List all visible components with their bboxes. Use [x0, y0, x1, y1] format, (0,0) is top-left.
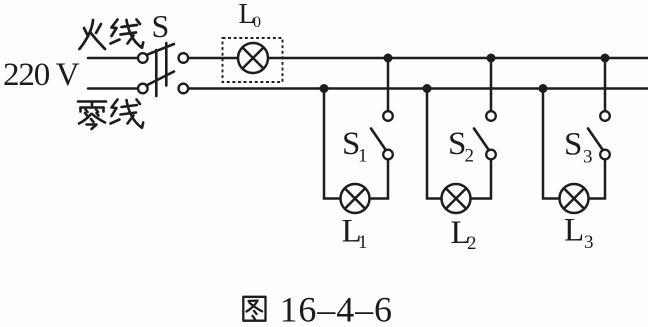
svg-text:L: L: [564, 213, 584, 249]
svg-text:1: 1: [358, 146, 368, 167]
svg-text:16–4–6: 16–4–6: [280, 290, 393, 327]
svg-text:3: 3: [583, 147, 593, 168]
svg-text:1: 1: [358, 232, 368, 253]
svg-text:2: 2: [465, 146, 475, 167]
svg-text:2: 2: [467, 233, 477, 254]
svg-text:0: 0: [253, 14, 261, 31]
svg-text:220 V: 220 V: [3, 57, 80, 93]
svg-text:S: S: [152, 8, 170, 44]
svg-text:S: S: [564, 127, 582, 163]
svg-text:3: 3: [584, 232, 594, 253]
